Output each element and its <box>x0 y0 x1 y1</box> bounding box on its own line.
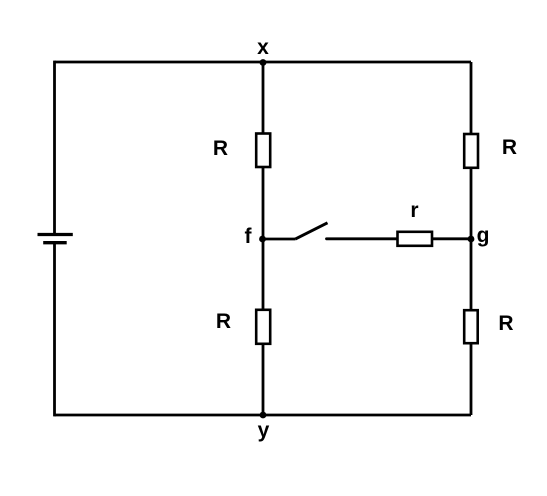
node x junction dot <box>260 59 267 66</box>
svg-text:f: f <box>245 225 253 248</box>
wire switch contact to resistor r <box>327 237 398 240</box>
svg-text:R: R <box>216 310 231 333</box>
resistor r (horizontal) <box>398 232 433 246</box>
wire left upper (to battery) <box>53 61 56 236</box>
svg-text:R: R <box>213 137 228 160</box>
resistor R (upper right) <box>464 134 478 168</box>
svg-text:x: x <box>257 36 269 59</box>
wire middle branch R to y <box>262 344 265 415</box>
wire top (x node rail) <box>55 61 472 64</box>
battery B1 short plate (-) <box>43 241 66 244</box>
wire middle branch R to f <box>262 167 265 239</box>
wire left lower (battery to bottom rail) <box>53 243 56 417</box>
svg-text:R: R <box>498 312 513 335</box>
wire right branch g to R bottom <box>470 239 473 311</box>
wire right branch R to y rail <box>470 343 473 415</box>
svg-text:R: R <box>502 136 517 159</box>
wire f to switch pivot <box>263 238 295 241</box>
wire middle branch x to R top <box>262 62 265 134</box>
wire right branch x to R top <box>470 62 473 135</box>
node g junction dot <box>468 236 475 243</box>
resistor R (lower right) <box>464 310 478 343</box>
resistor R (lower middle) <box>256 310 270 344</box>
resistor R (upper middle) <box>256 134 270 168</box>
wire middle branch f to R bottom <box>262 239 265 310</box>
node y junction dot <box>260 412 267 419</box>
svg-text:r: r <box>410 199 418 222</box>
switch S1 blade (open) <box>295 223 328 239</box>
wire resistor r to node g <box>432 237 471 240</box>
svg-text:g: g <box>477 224 490 247</box>
svg-text:y: y <box>258 419 270 442</box>
wire bottom (y node rail) <box>55 414 472 417</box>
wire right branch R to g <box>470 168 473 239</box>
battery B1 long plate (+) <box>38 233 73 236</box>
node f junction dot <box>259 236 266 243</box>
